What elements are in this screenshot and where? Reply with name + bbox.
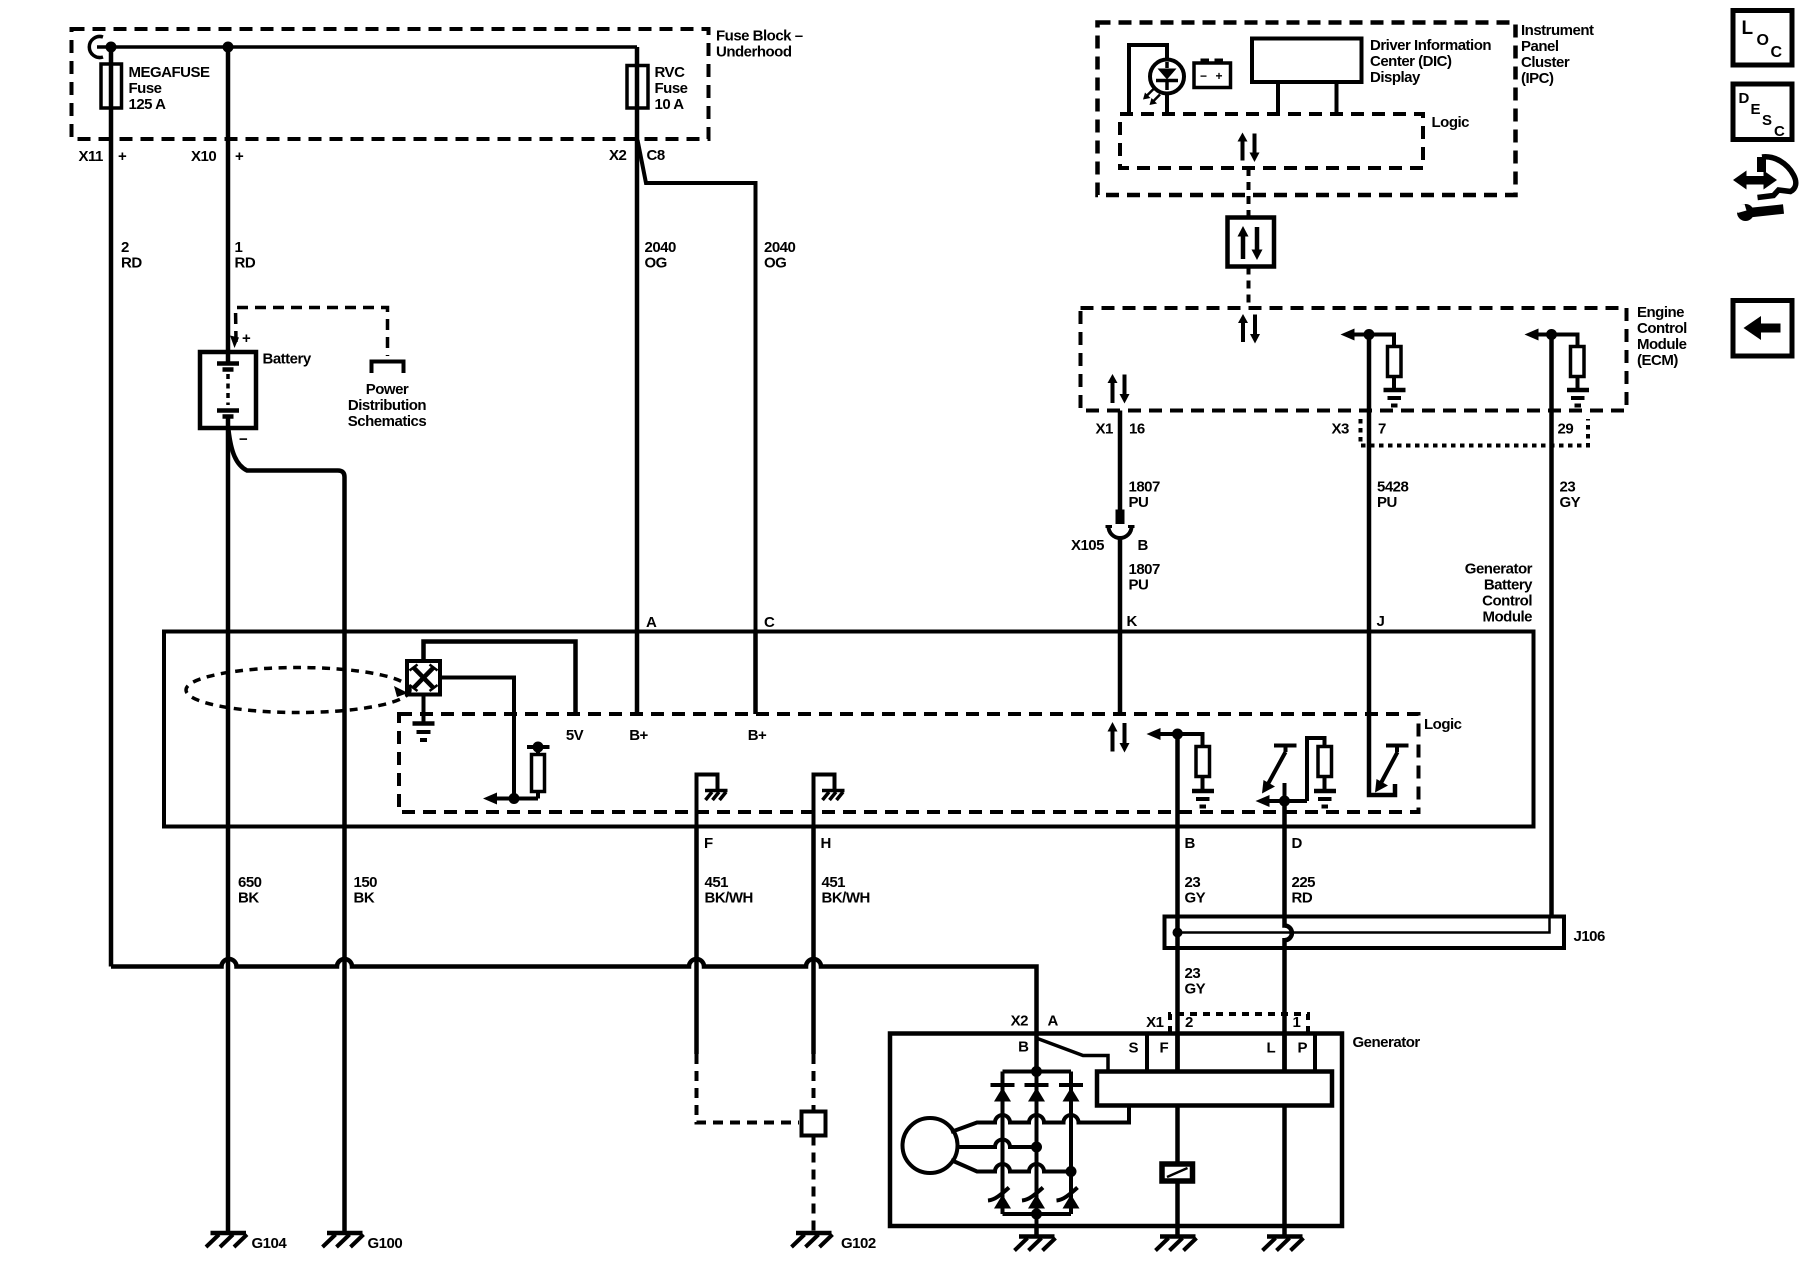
svg-text:Engine: Engine [1637, 304, 1684, 321]
wire 451 BK/WH (pin F) [694, 827, 699, 1055]
svg-text:16: 16 [1129, 421, 1145, 438]
inline connector on ground wires [802, 1112, 826, 1136]
earth ground under X symbol [422, 695, 426, 723]
svg-text:5428: 5428 [1377, 479, 1409, 496]
node: junction pin7 [1364, 329, 1375, 340]
fuse MEGAFUSE 125 A [101, 64, 122, 108]
battery B1 [242, 330, 251, 347]
wire regulator pin L to ground [1282, 1106, 1287, 1236]
field element symbol [1162, 1164, 1193, 1181]
node: junction pin B wire [1172, 729, 1183, 740]
svg-text:2: 2 [1185, 1014, 1193, 1031]
serial data dashed link connector to ECM [1247, 267, 1251, 309]
svg-text:X3: X3 [1332, 421, 1350, 438]
node: phase2 junction [1031, 1142, 1042, 1153]
battery annotation dashed callout [236, 308, 388, 357]
icon double arrow [1733, 171, 1777, 190]
wire ECM pin 16 stub [1118, 411, 1123, 435]
svg-text:Battery: Battery [263, 351, 312, 368]
svg-text:D: D [1739, 90, 1750, 107]
arrow: ECM pin7 internal [1351, 335, 1394, 347]
ground (field) [1156, 1237, 1197, 1251]
svg-text:Module: Module [1483, 609, 1533, 626]
resistor (D pullup) with hook [1307, 738, 1325, 801]
svg-text:10 A: 10 A [655, 96, 685, 113]
label Fuse Block Underhood [716, 28, 803, 61]
arrow: logic K output left [1157, 734, 1203, 747]
svg-text:BK: BK [238, 890, 259, 907]
svg-text:B+: B+ [748, 727, 767, 744]
GBCM pin labels A C K J [646, 613, 1385, 631]
diode D1 top [991, 1085, 1015, 1102]
svg-text:+: + [118, 148, 127, 165]
svg-text:X1: X1 [1096, 421, 1114, 438]
switch (J input) [1369, 714, 1395, 795]
wire 225 RD (GBCM pin D to generator) with J106 hop [1285, 801, 1292, 1072]
wire 451 BK/WH (pin H) [811, 827, 816, 1055]
svg-text:Generator: Generator [1353, 1034, 1421, 1051]
arrow: logic output left [493, 797, 538, 801]
svg-text:RD: RD [121, 255, 142, 272]
generator pin labels S F L P [1129, 1040, 1308, 1057]
svg-text:C8: C8 [647, 147, 665, 164]
svg-text:G100: G100 [368, 1235, 403, 1252]
svg-text:PU: PU [1129, 577, 1149, 594]
svg-text:G104: G104 [252, 1235, 288, 1252]
connector pin labels X11 X10 X2 C8 [79, 147, 665, 165]
ground bus wire (2 RD to generator B+) with hops [111, 959, 1037, 1072]
stator phase 3 winding wire [951, 1160, 1071, 1172]
stator phase 2 winding wire [958, 1140, 1037, 1148]
svg-text:C: C [764, 614, 775, 631]
wire regulator to field [1175, 1106, 1180, 1165]
wire 2 RD (X11 to ground bus) [109, 47, 114, 967]
voltage regulator box [1097, 1072, 1332, 1106]
fuse block underhood dashed box [72, 29, 709, 139]
diode D5 bottom avalanche [1022, 1188, 1045, 1209]
svg-text:GY: GY [1560, 494, 1581, 511]
svg-text:MEGAFUSE: MEGAFUSE [129, 64, 211, 81]
node: junction pin29 [1546, 329, 1557, 340]
svg-text:5V: 5V [566, 727, 584, 744]
svg-text:150: 150 [354, 874, 378, 891]
node: junction B+ rail [1031, 1066, 1042, 1077]
ground pin F hook [697, 775, 718, 827]
svg-text:X2: X2 [1011, 1013, 1029, 1030]
svg-text:F: F [704, 835, 713, 852]
svg-text:Logic: Logic [1424, 716, 1462, 733]
wire pin A inside box [635, 632, 640, 715]
svg-text:Power: Power [366, 381, 409, 398]
pin labels F H [704, 835, 831, 852]
ECM pin labels [1096, 421, 1574, 438]
arrows bidirectional (IPC logic) [1238, 133, 1260, 163]
svg-text:Cluster: Cluster [1521, 54, 1570, 71]
svg-text:S: S [1129, 1040, 1139, 1057]
serial data connector box [1228, 218, 1275, 267]
svg-text:J106: J106 [1574, 928, 1606, 945]
node: junction X10 feed [223, 42, 234, 53]
node: junction at arrow line [509, 793, 520, 804]
svg-text:23: 23 [1185, 874, 1201, 891]
wire pin C inside box [753, 632, 758, 715]
wire 2040 OG (branch to GBCM pin C) [638, 140, 756, 631]
svg-text:O: O [1757, 32, 1769, 49]
wire 1807 PU (ECM 16 to X105) [1118, 434, 1123, 510]
svg-text:B: B [1018, 1039, 1029, 1056]
earth ground (ECM pin29) [1567, 390, 1589, 406]
svg-text:1807: 1807 [1129, 479, 1161, 496]
transducer X symbol [407, 661, 440, 695]
pin B+ labels [629, 727, 767, 744]
icon box LOC [1733, 11, 1792, 66]
ground G100 [323, 1233, 364, 1247]
wire to G102 [812, 1136, 816, 1232]
arrows bidirectional (ECM serial) [1238, 314, 1260, 344]
svg-text:2: 2 [121, 239, 129, 256]
svg-text:S: S [1762, 112, 1772, 129]
earth ground (D pullup) [1314, 791, 1336, 807]
svg-text:A: A [646, 614, 657, 631]
svg-text:E: E [1751, 101, 1761, 118]
wire 1 RD (X10 to battery) [226, 47, 231, 352]
resistor (5V sense) [527, 745, 550, 749]
svg-text:J: J [1377, 613, 1385, 630]
diode D6 bottom avalanche [1057, 1188, 1080, 1209]
svg-text:29: 29 [1558, 421, 1574, 438]
svg-text:7: 7 [1378, 421, 1386, 438]
svg-text:451: 451 [705, 874, 729, 891]
svg-text:+: + [1216, 69, 1223, 83]
svg-text:OG: OG [764, 255, 786, 272]
svg-text:GY: GY [1185, 981, 1206, 998]
svg-text:23: 23 [1185, 965, 1201, 982]
svg-text:P: P [1298, 1040, 1308, 1057]
wire telltale lamp loop [1129, 45, 1167, 114]
wire X symbol output [440, 678, 514, 799]
wire 1807 PU (X105 to GBCM pin K) [1118, 538, 1123, 714]
svg-text:OG: OG [645, 255, 667, 272]
arrow: D output left [1266, 799, 1307, 803]
svg-text:−: − [239, 431, 248, 448]
svg-text:RD: RD [235, 255, 256, 272]
stator phase 1 winding wire [951, 1106, 1129, 1133]
svg-text:X11: X11 [79, 148, 104, 165]
diode D4 bottom avalanche [988, 1188, 1011, 1209]
svg-text:RD: RD [1292, 890, 1313, 907]
battery icon in IPC [1194, 63, 1231, 88]
generator connector labels X2 A B [1011, 1013, 1059, 1056]
resistor (B sense) [1196, 747, 1210, 777]
svg-text:C: C [1771, 44, 1783, 61]
splice pack J106 [1165, 917, 1565, 949]
svg-text:1: 1 [1293, 1014, 1301, 1031]
svg-text:X105: X105 [1071, 537, 1104, 554]
svg-text:650: 650 [238, 874, 262, 891]
svg-text:PU: PU [1129, 494, 1149, 511]
svg-text:451: 451 [822, 874, 846, 891]
wire 23 GY (GBCM pin B to generator) [1175, 734, 1180, 1072]
ground G104 [206, 1233, 247, 1247]
ground (lamp driver) [1263, 1237, 1304, 1251]
wire 23 GY (J106 to generator pin 2) [1185, 965, 1206, 998]
svg-text:Schematics: Schematics [348, 413, 427, 430]
svg-text:Logic: Logic [1432, 114, 1470, 131]
node: junction pin D wire [1279, 796, 1290, 807]
diode D2 top [1025, 1085, 1049, 1102]
pin labels B D below box [1185, 835, 1303, 852]
fuse RVC 10 A [627, 66, 648, 109]
node: junction X11 feed [106, 42, 117, 53]
connector X1 dashed outline (generator) [1170, 1014, 1308, 1033]
icon box DESC [1733, 84, 1792, 140]
svg-text:Generator: Generator [1465, 561, 1533, 578]
svg-text:Module: Module [1637, 336, 1687, 353]
engine control module dashed box [1081, 308, 1627, 411]
svg-text:BK/WH: BK/WH [822, 890, 870, 907]
svg-text:125 A: 125 A [129, 96, 167, 113]
diode D3 top [1059, 1085, 1083, 1102]
svg-text:Fuse Block –: Fuse Block – [716, 28, 803, 45]
svg-text:BK/WH: BK/WH [705, 890, 753, 907]
connector X3 dotted outline [1361, 419, 1589, 446]
indicator LED lamp [1150, 60, 1184, 94]
svg-text:(IPC): (IPC) [1521, 70, 1554, 87]
node: junction bottom rail [1031, 1209, 1042, 1220]
rectifier bridge rails and columns [1003, 1072, 1072, 1227]
wire: battery positive bus in fuse block [89, 37, 103, 58]
svg-text:L: L [1742, 18, 1754, 39]
svg-text:Fuse: Fuse [655, 80, 688, 97]
wire field to ground [1175, 1181, 1180, 1235]
svg-text:X10: X10 [191, 148, 216, 165]
wire 5428 PU (ECM 7 to GBCM pin J) [1367, 335, 1372, 715]
svg-text:Underhood: Underhood [716, 44, 792, 61]
svg-text:Control: Control [1637, 320, 1687, 337]
svg-text:K: K [1127, 613, 1138, 630]
resistor (ECM pin29) [1571, 347, 1585, 377]
LED emission arrows [1146, 89, 1160, 102]
IPC logic dashed box [1120, 114, 1423, 168]
ground G102 [792, 1233, 833, 1247]
ground (rectifier) [1015, 1237, 1056, 1251]
svg-text:Display: Display [1370, 69, 1421, 86]
svg-text:Fuse: Fuse [129, 80, 162, 97]
generator box [890, 1034, 1342, 1227]
power distribution schematics bracket [372, 362, 404, 374]
svg-text:1: 1 [235, 239, 243, 256]
svg-text:Distribution: Distribution [348, 397, 426, 414]
svg-text:F: F [1160, 1040, 1169, 1057]
wire generator pin 1/L internal [1282, 1034, 1287, 1072]
svg-text:Control: Control [1482, 593, 1532, 610]
svg-text:H: H [821, 835, 831, 852]
icon wrench [1736, 204, 1784, 221]
wire rectifier to ground [1034, 1226, 1039, 1235]
switch (D driver) [1274, 744, 1297, 748]
wire 2040 OG (RVC fuse to GBCM pin A) [635, 47, 640, 631]
svg-text:(ECM): (ECM) [1637, 352, 1678, 369]
svg-text:Instrument: Instrument [1521, 22, 1594, 39]
svg-text:Driver Information: Driver Information [1370, 37, 1491, 54]
svg-text:23: 23 [1560, 479, 1576, 496]
svg-text:+: + [235, 148, 244, 165]
wire generator pin 2/F internal [1175, 1034, 1180, 1072]
wire 650 BK (battery negative to G104) [226, 428, 231, 1231]
svg-text:C: C [1774, 123, 1785, 140]
svg-text:B+: B+ [629, 727, 648, 744]
icon box back arrow [1733, 301, 1792, 357]
svg-text:PU: PU [1377, 494, 1397, 511]
GBCM logic dashed box [399, 714, 1419, 812]
svg-text:X1: X1 [1146, 1014, 1164, 1031]
serial data dashed link IPC to connector [1247, 168, 1251, 218]
svg-text:1807: 1807 [1129, 561, 1161, 578]
instrument panel cluster dashed box [1098, 23, 1516, 196]
svg-text:X2: X2 [609, 147, 627, 164]
earth ground (ECM pin7) [1384, 390, 1406, 406]
svg-text:Center (DIC): Center (DIC) [1370, 53, 1452, 70]
arrows bidirectional (logic K input) [1108, 722, 1130, 753]
node: phase3 junction [1066, 1166, 1077, 1177]
svg-text:A: A [1048, 1013, 1059, 1030]
wire 23 GY (ECM 29 to J106) [1549, 335, 1554, 917]
svg-text:Battery: Battery [1484, 577, 1533, 594]
inline connector X105 [1116, 510, 1125, 525]
DIC display box [1252, 39, 1362, 83]
svg-text:GY: GY [1185, 890, 1206, 907]
svg-text:BK: BK [354, 890, 375, 907]
svg-text:B: B [1138, 537, 1149, 554]
arrow: ECM pin29 internal [1535, 335, 1578, 347]
earth ground (B sense) [1192, 791, 1214, 807]
generator battery control module box [164, 632, 1534, 827]
dashed ellipse annotation [186, 668, 410, 713]
svg-text:B: B [1185, 835, 1196, 852]
svg-text:L: L [1267, 1040, 1276, 1057]
svg-text:Panel: Panel [1521, 38, 1559, 55]
ground pin H hook [814, 775, 835, 827]
resistor (ECM pin7) [1388, 347, 1402, 377]
arrows bidirectional (ECM pin16) [1108, 374, 1130, 404]
rotor winding circle [903, 1118, 958, 1173]
wire 150 BK (battery negative to G100) [229, 430, 345, 1231]
pin stubs S and P [1147, 1034, 1315, 1072]
wire 5V internal [424, 642, 576, 715]
svg-text:−: − [1200, 69, 1207, 83]
svg-text:225: 225 [1292, 874, 1316, 891]
svg-text:+: + [242, 330, 251, 347]
svg-text:2040: 2040 [645, 239, 677, 256]
svg-text:G102: G102 [841, 1235, 876, 1252]
svg-text:D: D [1292, 835, 1303, 852]
wire B pin diagonal to regulator [1038, 1039, 1109, 1072]
svg-text:RVC: RVC [655, 64, 686, 81]
icon vehicle data link [1758, 157, 1796, 198]
svg-text:2040: 2040 [764, 239, 796, 256]
